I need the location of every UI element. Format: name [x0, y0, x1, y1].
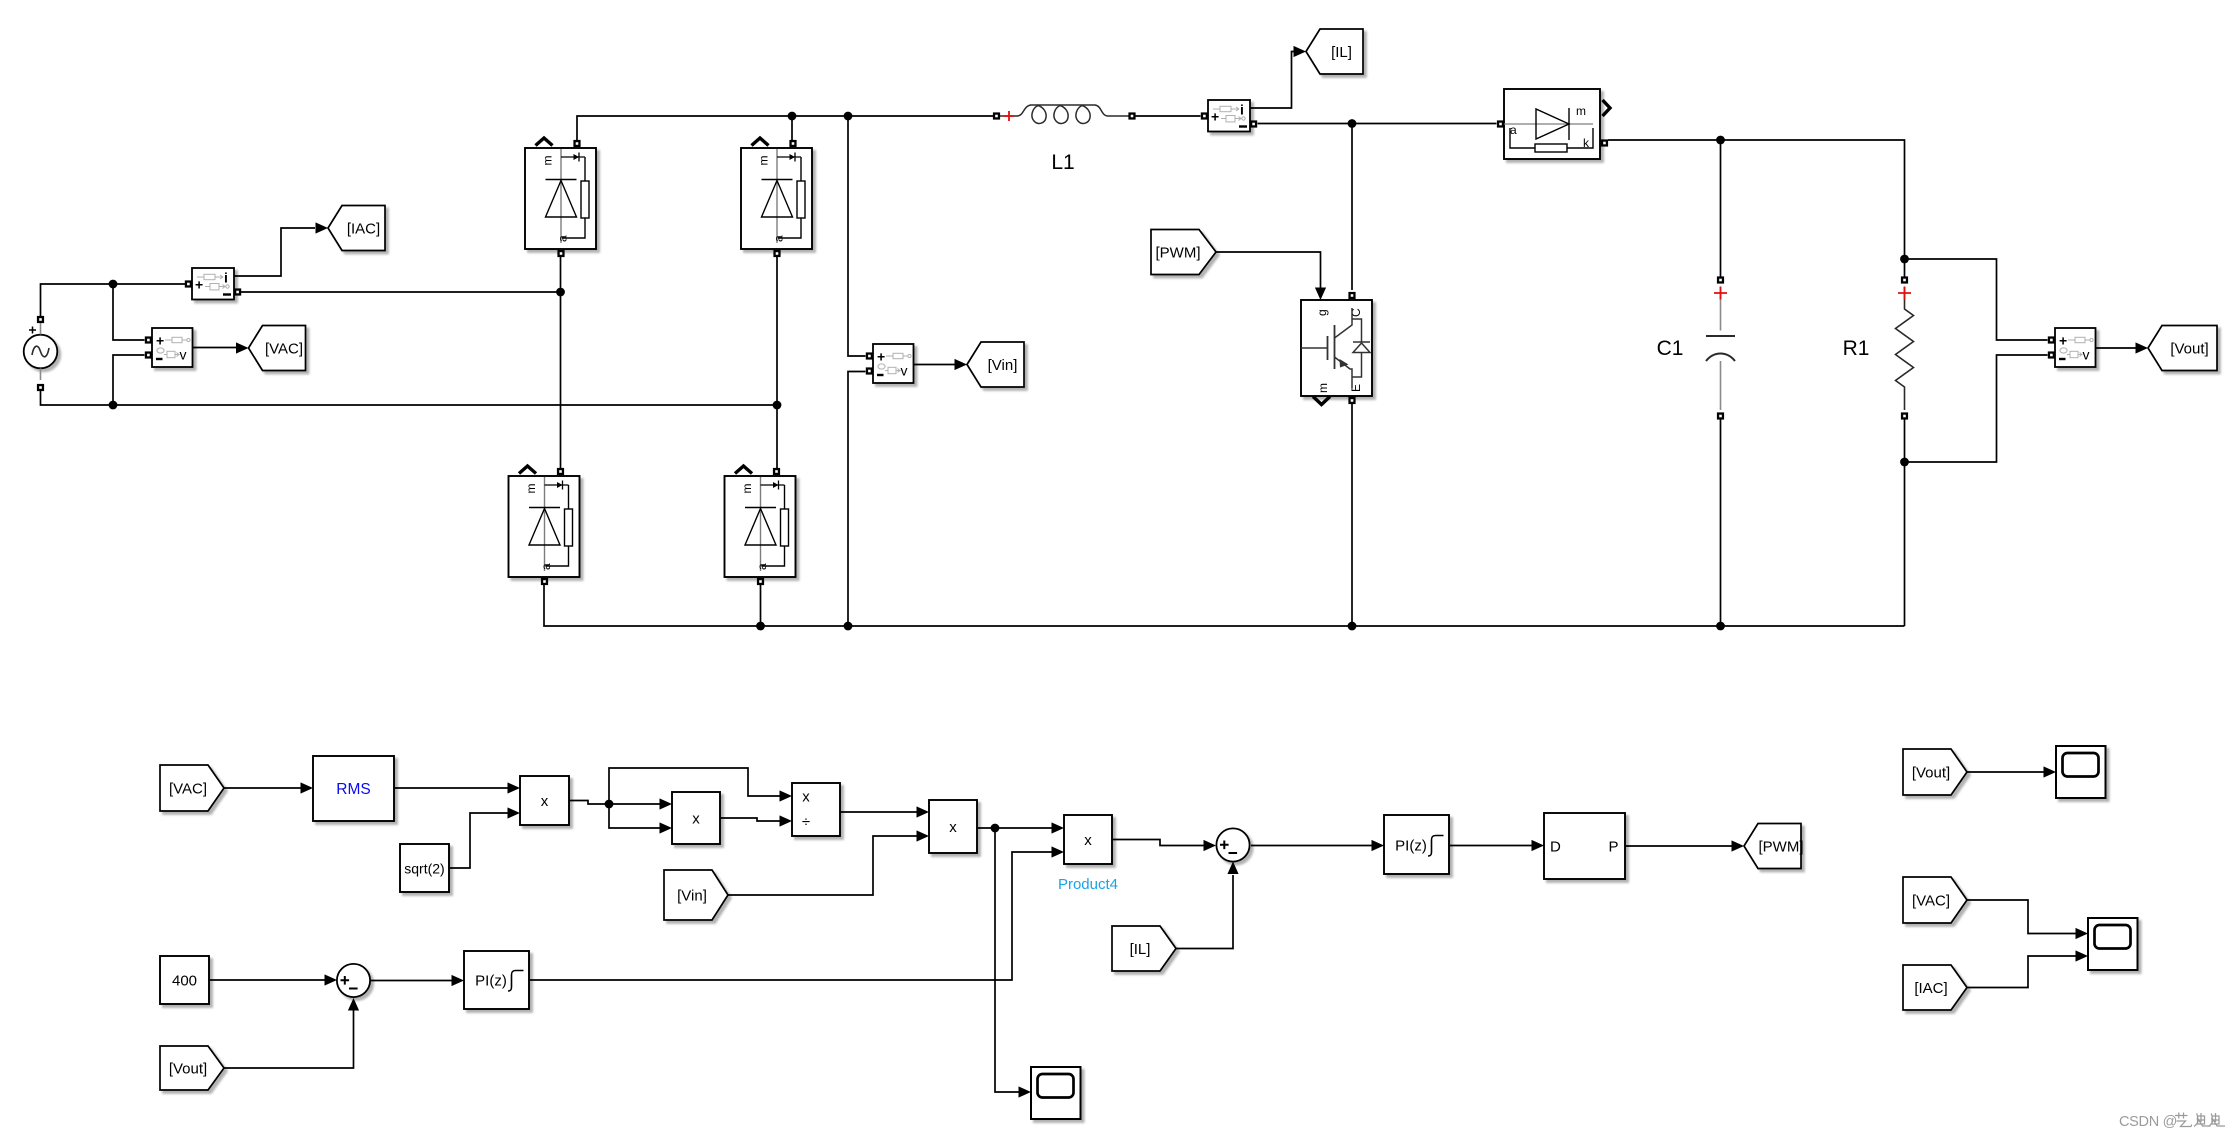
- wire: R1 top node tap to Vout sensor plus input: [1905, 259, 2048, 340]
- arrowhead: into AC scope input 2: [2076, 950, 2089, 961]
- junction node: R1 top Vout tap: [1900, 255, 1909, 264]
- from tag [Vout] (control): [160, 1046, 224, 1090]
- voltage sensor (AC input voltage): [145, 328, 193, 367]
- wire: AC source minus terminal to bottom rail toward bridge right leg: [41, 390, 778, 405]
- arrowhead: into Product2 input 1: [917, 806, 930, 817]
- wire: bridge right leg D2 to D4: [776, 256, 778, 468]
- constant 400: [160, 956, 209, 1004]
- boost diode D5: [1497, 89, 1610, 159]
- arrowhead: into RMS: [301, 782, 314, 793]
- from tag [IAC] (scope column): [1903, 965, 1967, 1010]
- wire: top rail from D1 top to L1: [577, 116, 993, 141]
- arrowhead: into Vout scope: [2044, 766, 2057, 777]
- diode module D4 (bridge bottom-right): [725, 466, 796, 585]
- wire: Vout sensor v output to [Vout] goto: [2096, 347, 2137, 349]
- goto tag [IAC]: [328, 206, 385, 251]
- product block Product2 (Vin scaling): [929, 800, 977, 853]
- junction node B after Product2: [991, 824, 1000, 833]
- svg-text:k: k: [1583, 136, 1590, 150]
- svg-text:PI(z): PI(z): [475, 973, 507, 990]
- arrowhead: into [Vout] goto: [2136, 342, 2149, 353]
- wire: AC source plus terminal to top-left node: [41, 284, 114, 317]
- resistor R1: [1843, 276, 1914, 419]
- wire: sqrt(2) output up to Product input 2: [449, 813, 508, 868]
- from tag [Vout] (scope column): [1903, 749, 1967, 795]
- junction node: top rail above D2: [788, 112, 797, 121]
- arrowhead: into Product1 input 2: [660, 822, 673, 833]
- diode module D3 (bridge bottom-left): [509, 466, 580, 585]
- product block Product4: [1058, 815, 1118, 893]
- voltage sensor (output voltage): [2048, 328, 2096, 367]
- current sensor (AC input current): [185, 268, 241, 300]
- from tag [Vin] (control): [664, 870, 728, 920]
- arrowhead: into Product4 input 1: [1052, 822, 1065, 833]
- svg-text:[VAC]: [VAC]: [1912, 893, 1950, 910]
- svg-text:sqrt(2): sqrt(2): [404, 861, 444, 877]
- wire: node down to voltage sensor plus input: [113, 284, 145, 340]
- wire: bottom rail node up to voltage sensor minus input: [113, 355, 145, 405]
- goto tag [Vin]: [967, 342, 1024, 387]
- arrowhead: into current sum left input: [1204, 840, 1217, 851]
- current sensor (inductor current): [1201, 100, 1257, 132]
- junction node: top rail Vin tap: [844, 112, 853, 121]
- svg-text:[IL]: [IL]: [1130, 941, 1151, 958]
- svg-text:[PWM]: [PWM]: [1156, 245, 1201, 262]
- wire: bottom bus from D3 leg to R1 leg: [544, 585, 1905, 626]
- wire: boost diode cathode to output top rail and down to R1: [1608, 140, 1905, 280]
- wire: node B to Product4 input 1: [995, 827, 1052, 829]
- wire: [Vout] from tag to output scope: [1967, 771, 2044, 773]
- wire: voltage sensor v output to [VAC] goto: [193, 347, 237, 349]
- svg-text:Product4: Product4: [1058, 876, 1118, 893]
- svg-text:[PWM]: [PWM]: [1759, 839, 1804, 856]
- from tag [PWM]: [1151, 230, 1216, 275]
- scope (AC voltage and current): [2088, 918, 2138, 970]
- wire: [Vin] from tag up to Product2 input 2: [728, 836, 917, 895]
- svg-text:R1: R1: [1843, 337, 1870, 360]
- wire: [PWM] from tag to IGBT gate: [1216, 252, 1321, 288]
- svg-text:[Vin]: [Vin]: [677, 888, 707, 905]
- wire: bridge left leg D1 to D3: [560, 256, 562, 468]
- wire: voltage PI output over and up to Product4 input 2: [529, 852, 1052, 980]
- goto tag [Vout]: [2148, 326, 2217, 371]
- wire: D4 bottom port to bottom bus: [760, 585, 762, 626]
- wire: constant 400 to voltage sum input: [209, 979, 325, 981]
- junction node: bridge left leg joins sensor wire: [556, 288, 565, 297]
- wire: voltage sum output to voltage PI input: [371, 980, 453, 982]
- junction node: output rail at C1: [1716, 136, 1725, 145]
- arrowhead: into Product1 input 1: [660, 798, 673, 809]
- arrowhead: into IGBT gate: [1315, 288, 1326, 301]
- junction node A after Product: [605, 800, 614, 809]
- arrowhead: into Product4 input 2: [1052, 846, 1065, 857]
- PWM generator block (D to P): [1544, 813, 1625, 879]
- arrowhead: into Divide input 2: [780, 815, 793, 826]
- svg-text:CSDN @: CSDN @: [2119, 1114, 2177, 1130]
- junction node: boost node above IGBT: [1348, 119, 1357, 128]
- svg-text:E: E: [1349, 384, 1363, 392]
- svg-text:m: m: [1576, 104, 1586, 118]
- junction node: bottom bus at C1 leg: [1716, 622, 1725, 631]
- arrowhead: into [IAC] goto: [316, 222, 329, 233]
- from tag [VAC] (scope column): [1903, 877, 1967, 923]
- svg-text:C1: C1: [1657, 337, 1684, 360]
- arrowhead: into AC scope input 1: [2076, 928, 2089, 939]
- wire: [IAC] from tag to AC scope input 2: [1967, 956, 2076, 988]
- wire: node to current sensor plus input: [113, 283, 185, 285]
- svg-text:[VAC]: [VAC]: [169, 781, 207, 798]
- wire: node A to Product1 input 1: [609, 803, 660, 805]
- wire: tap from top rail down to Vin sensor plus input: [848, 116, 866, 356]
- svg-text:[Vout]: [Vout]: [2170, 341, 2208, 358]
- arrowhead: into current PI: [1372, 840, 1385, 851]
- product block (Vrms x sqrt2): [520, 776, 569, 825]
- svg-text:D: D: [1550, 839, 1561, 856]
- svg-text:[IAC]: [IAC]: [1914, 980, 1947, 997]
- goto tag [IL]: [1306, 29, 1363, 74]
- svg-text:x: x: [692, 811, 700, 828]
- constant sqrt(2): [400, 844, 449, 892]
- svg-text:x: x: [1084, 832, 1092, 849]
- wire: [Vout] from tag up to voltage sum minus input: [224, 1010, 354, 1068]
- arrowhead: into Product2 input 2: [917, 830, 930, 841]
- arrowhead: into bottom scope: [1019, 1086, 1032, 1097]
- junction node: bottom bus at D4 leg: [756, 622, 765, 631]
- svg-text:[IL]: [IL]: [1331, 44, 1352, 61]
- svg-text:x: x: [802, 789, 810, 806]
- junction node: R1 bottom Vout tap: [1900, 458, 1909, 467]
- voltage sensor (rectified input voltage): [866, 344, 914, 383]
- wire: current sensor i output up to [IAC] goto: [232, 228, 315, 276]
- svg-text:g: g: [1315, 309, 1329, 316]
- wire: node A up and over to Divide input 1: [609, 768, 780, 804]
- svg-text:[Vout]: [Vout]: [169, 1061, 207, 1078]
- svg-text:[VAC]: [VAC]: [265, 341, 303, 358]
- svg-text:RMS: RMS: [336, 781, 370, 798]
- junction node: bottom bus at Vin minus leg: [844, 622, 853, 631]
- arrowhead: into Divide input 1: [780, 790, 793, 801]
- arrowhead: into PWM generator: [1532, 840, 1545, 851]
- goto tag [VAC]: [249, 326, 306, 371]
- wire: Product output to node A: [569, 801, 609, 805]
- wire: RMS output to Product input 1: [394, 787, 508, 789]
- wire: Product4 output to current sum junction: [1112, 840, 1204, 846]
- wire: Vin sensor minus input down to bottom bus: [848, 372, 866, 627]
- diode module D1 (bridge top-left): [525, 138, 596, 257]
- svg-text:a: a: [1510, 123, 1517, 137]
- wire: IL sensor i output up to [IL] goto: [1250, 52, 1294, 109]
- wire: R1 bottom to bottom bus: [1904, 416, 1906, 626]
- capacitor C1: [1657, 276, 1735, 419]
- AC voltage source V1: [24, 316, 58, 391]
- wire: node B down to Scope: [995, 828, 1019, 1092]
- svg-text:P: P: [1608, 839, 1618, 856]
- arrowhead: into [Vin] goto: [955, 359, 968, 370]
- arrowhead: into voltage sum left input: [325, 974, 338, 985]
- arrowhead: into [PWM] goto: [1732, 840, 1745, 851]
- wire: current sum output to current PI input: [1251, 845, 1372, 847]
- junction node: bottom-left AC node: [109, 401, 118, 410]
- divide block: [792, 783, 840, 836]
- watermark CSDN: [2119, 1113, 2225, 1131]
- arrowhead: into Product input 1: [508, 782, 521, 793]
- wire: PWM generator output to [PWM] goto: [1625, 845, 1732, 847]
- svg-text:400: 400: [172, 973, 197, 990]
- sum block (current loop): [1216, 828, 1249, 861]
- arrowhead: into voltage PI: [452, 975, 465, 986]
- wire: [IL] from tag up to sum minus input: [1176, 875, 1233, 949]
- svg-text:C: C: [1349, 308, 1363, 317]
- svg-text:[Vout]: [Vout]: [1912, 765, 1950, 782]
- wire: Divide output to Product2 input 1: [840, 811, 917, 813]
- wire: Product1 output to Divide input 2: [720, 818, 780, 821]
- wire: L1 right port to IL current sensor: [1136, 115, 1201, 117]
- wire: IL sensor minus output to boost diode anode: [1258, 123, 1497, 125]
- svg-text:m: m: [1316, 383, 1330, 393]
- discrete PI controller (voltage loop): [464, 951, 529, 1009]
- junction node: top-left AC node: [109, 280, 118, 289]
- arrowhead: into [VAC] goto: [236, 342, 249, 353]
- inductor L1: [993, 105, 1136, 174]
- RMS block: [313, 756, 394, 821]
- arrowhead: into Product input 2: [508, 807, 521, 818]
- IGBT Q1: [1301, 292, 1372, 405]
- wire: Product2 output to node B: [977, 827, 995, 829]
- arrowhead: into voltage sum bottom input: [348, 998, 359, 1011]
- wire: Vin sensor v output to [Vin] goto: [914, 364, 956, 366]
- diode module D2 (bridge top-right): [741, 138, 812, 257]
- wire: node A down to Product1 input 2: [609, 804, 660, 828]
- discrete PI controller (current loop): [1384, 815, 1449, 874]
- wire: current PI output to PWM generator input: [1449, 845, 1532, 847]
- arrowhead: into [IL] goto: [1294, 46, 1307, 57]
- from tag [VAC] (control): [160, 765, 224, 811]
- wire: [VAC] from tag to RMS input: [224, 787, 301, 789]
- scope (output voltage): [2056, 746, 2106, 798]
- svg-text:[Vin]: [Vin]: [988, 357, 1018, 374]
- wire: output rail drop to C1 top: [1720, 140, 1722, 280]
- svg-text:x: x: [541, 793, 549, 810]
- junction node: bridge right leg joins bottom rail: [773, 401, 782, 410]
- scope (duty cycle): [1031, 1067, 1081, 1119]
- svg-text:÷: ÷: [802, 814, 810, 831]
- svg-text:x: x: [949, 819, 957, 836]
- wire: drop from top rail into D2 top port: [791, 116, 793, 141]
- arrowhead: into current sum bottom input: [1227, 862, 1238, 875]
- junction node: bottom bus at IGBT leg: [1348, 622, 1357, 631]
- wire: drop from boost node down to IGBT collector: [1351, 124, 1353, 291]
- product block Product1 (square): [672, 792, 720, 844]
- wire: C1 bottom to bottom bus: [1720, 416, 1722, 626]
- wire: R1 bottom node tap to Vout sensor minus input: [1905, 355, 2048, 462]
- svg-text:L1: L1: [1051, 151, 1074, 174]
- wire: IGBT emitter down to bottom bus: [1351, 401, 1353, 626]
- wire: [VAC] from tag to AC scope input 1: [1967, 900, 2076, 934]
- from tag [IL] (control): [1112, 926, 1176, 971]
- sum block (voltage loop): [337, 964, 370, 997]
- wire: current sensor minus output to bridge left leg: [240, 291, 561, 293]
- svg-text:[IAC]: [IAC]: [347, 221, 380, 238]
- svg-text:PI(z): PI(z): [1395, 838, 1427, 855]
- goto tag [PWM] (control): [1744, 824, 1804, 869]
